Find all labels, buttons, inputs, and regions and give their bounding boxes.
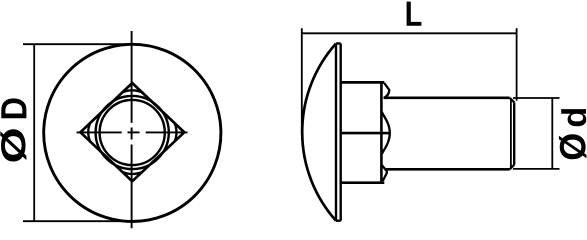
corner fillet arc bottom <box>123 172 143 174</box>
label O d : letter d <box>561 109 586 126</box>
label O D : letter D <box>1 98 26 118</box>
vertical centerline <box>131 31 133 228</box>
dimension L: extension line right <box>516 28 518 101</box>
label O D : diameter symbol <box>0 129 26 161</box>
square neck end: flats boundary vertical <box>380 84 383 182</box>
square neck end: bottom corner flap <box>382 165 387 181</box>
label L <box>407 2 422 26</box>
horizontal centerline <box>77 131 188 133</box>
shank chamfer edge line <box>510 99 512 168</box>
front view: bolt head circle <box>44 44 221 221</box>
shank end face <box>513 102 515 165</box>
shank bottom line <box>385 168 510 171</box>
dimension O D: extension line bottom <box>23 220 136 222</box>
head max-diameter line <box>335 44 337 221</box>
label O d : diameter symbol <box>559 134 587 159</box>
head bearing face <box>340 44 342 221</box>
square neck corner edge (mid line) <box>342 132 390 135</box>
square neck (diamond outline) <box>80 83 184 181</box>
square neck bottom edge <box>341 181 385 184</box>
square neck end: middle corner flap <box>382 112 390 155</box>
dimension O d: dimension line <box>551 98 553 169</box>
dimension L: extension line left <box>301 28 303 133</box>
square neck top edge <box>341 81 385 84</box>
dimension O D: dimension line <box>33 44 35 221</box>
corner fillet arc left <box>88 123 90 142</box>
corner fillet arc right <box>175 123 177 142</box>
dimension O d: extension line top <box>513 97 560 99</box>
shank end chamfer bottom <box>510 165 515 170</box>
shank circle inner <box>100 100 165 165</box>
head rim bottom edge <box>336 219 341 221</box>
dimension O d: extension line bottom <box>513 168 560 170</box>
shank end chamfer top <box>510 98 515 103</box>
side view: domed head profile arc <box>302 44 336 221</box>
square neck end: top corner flap <box>384 83 390 98</box>
head/neck circle outer <box>96 96 169 169</box>
dimension O D: extension line top <box>23 43 135 45</box>
shank top line <box>384 96 510 99</box>
dimension L: dimension line <box>302 32 517 34</box>
corner fillet arc top <box>123 90 143 92</box>
head rim top edge <box>336 42 341 44</box>
